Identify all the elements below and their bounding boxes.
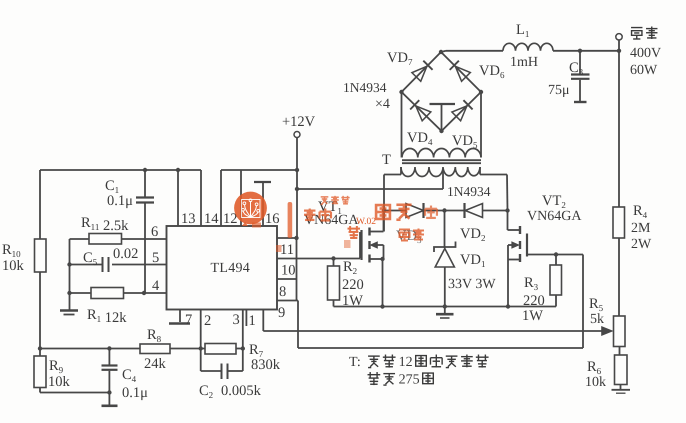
svg-text:W.02: W.02 — [356, 217, 376, 227]
svg-text:1W: 1W — [342, 293, 363, 309]
svg-text:2: 2 — [204, 313, 211, 329]
svg-text:0.005k: 0.005k — [221, 383, 262, 399]
svg-text:L1: L1 — [516, 22, 529, 39]
svg-text:7: 7 — [185, 312, 192, 328]
svg-text:60W: 60W — [630, 63, 658, 78]
svg-text:R10: R10 — [2, 242, 21, 259]
svg-text:6: 6 — [151, 224, 158, 240]
svg-text:4: 4 — [152, 278, 160, 294]
svg-text:2W: 2W — [631, 237, 652, 252]
svg-text:VN64GA: VN64GA — [527, 209, 582, 224]
svg-text:8: 8 — [279, 284, 286, 300]
svg-text:12: 12 — [399, 355, 413, 370]
svg-text:11: 11 — [280, 242, 294, 258]
svg-text:1N4934: 1N4934 — [343, 80, 387, 95]
svg-text:R9: R9 — [49, 358, 64, 375]
svg-text:0.1μ: 0.1μ — [122, 385, 148, 401]
svg-text:VD7: VD7 — [387, 50, 413, 67]
svg-text:24k: 24k — [144, 356, 167, 372]
svg-text:0.1μ: 0.1μ — [107, 193, 133, 209]
svg-text:1mH: 1mH — [510, 55, 538, 70]
svg-text:275: 275 — [399, 373, 420, 388]
svg-text:1N4934: 1N4934 — [447, 184, 491, 199]
svg-text:VD6: VD6 — [479, 63, 505, 80]
svg-text:VD5: VD5 — [452, 133, 478, 150]
svg-text:R2: R2 — [343, 259, 357, 276]
svg-text:1W: 1W — [522, 308, 543, 324]
svg-text:33V 3W: 33V 3W — [448, 277, 496, 292]
svg-text:220: 220 — [342, 277, 364, 293]
svg-text:9: 9 — [278, 305, 285, 321]
svg-text:TL494: TL494 — [211, 261, 251, 276]
svg-text:5: 5 — [152, 250, 159, 266]
svg-text:10k: 10k — [585, 375, 606, 390]
svg-text:VT2: VT2 — [542, 193, 566, 210]
svg-text:VD1: VD1 — [460, 252, 485, 269]
svg-text:C2: C2 — [199, 383, 213, 400]
svg-text:5k: 5k — [590, 312, 604, 327]
svg-text:×4: ×4 — [375, 97, 390, 112]
svg-text:14: 14 — [204, 211, 219, 227]
svg-text:T: T — [382, 152, 391, 168]
svg-text:R5: R5 — [589, 296, 604, 313]
svg-text:VD2: VD2 — [460, 226, 485, 243]
svg-text:400V: 400V — [630, 46, 661, 61]
svg-text:10k: 10k — [2, 258, 25, 274]
svg-text:3: 3 — [233, 312, 240, 328]
svg-text:220: 220 — [523, 293, 545, 309]
svg-text:75μ: 75μ — [548, 83, 570, 98]
svg-text:1: 1 — [249, 313, 256, 329]
svg-text:2M: 2M — [631, 221, 651, 236]
svg-text:10k: 10k — [48, 374, 71, 390]
svg-text:13: 13 — [181, 211, 196, 227]
svg-text:C5: C5 — [83, 250, 98, 267]
svg-text:R1 12k: R1 12k — [87, 307, 127, 326]
svg-text:+12V: +12V — [282, 114, 316, 130]
svg-text:VD4: VD4 — [407, 130, 433, 147]
svg-text:R4: R4 — [633, 203, 648, 220]
svg-text:16: 16 — [265, 211, 280, 227]
svg-text:R8: R8 — [147, 327, 162, 344]
svg-text:T:: T: — [349, 355, 361, 370]
svg-text:C3: C3 — [569, 60, 584, 77]
svg-text:830k: 830k — [251, 357, 281, 373]
svg-text:C4: C4 — [122, 367, 137, 384]
svg-text:R11 2.5k: R11 2.5k — [81, 215, 129, 234]
svg-text:R6: R6 — [587, 359, 602, 376]
svg-text:0.02: 0.02 — [113, 246, 138, 262]
svg-text:10: 10 — [281, 263, 296, 279]
svg-text:R3: R3 — [524, 275, 539, 292]
